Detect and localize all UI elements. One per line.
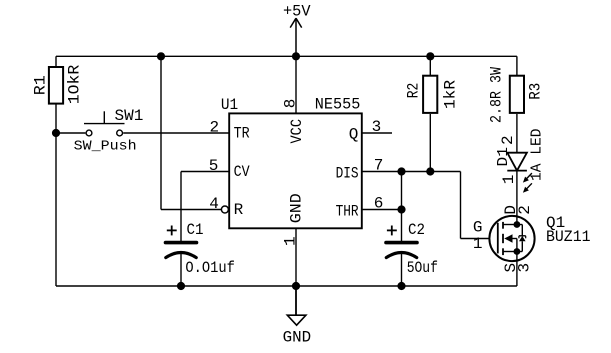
wire top bus <box>56 55 517 57</box>
svg-text:1kR: 1kR <box>442 80 460 109</box>
wire GND pin 1 <box>295 228 297 286</box>
svg-text:O.O1uf: O.O1uf <box>185 259 235 277</box>
svg-text:C2: C2 <box>408 221 425 239</box>
svg-text:SW1: SW1 <box>115 107 144 125</box>
resistor R3 <box>510 76 524 113</box>
svg-text:D1: D1 <box>496 147 512 167</box>
svg-text:R2: R2 <box>405 83 423 99</box>
node junction THR <box>397 205 405 213</box>
svg-text:R1: R1 <box>32 75 50 95</box>
svg-text:5: 5 <box>209 157 219 175</box>
wire reset vertical <box>160 56 162 209</box>
node junction top (R2) <box>426 52 434 60</box>
wire R2 bottom <box>429 114 431 172</box>
svg-text:NE555: NE555 <box>315 95 361 113</box>
svg-text:8: 8 <box>282 99 300 109</box>
wire R2 top <box>429 56 431 75</box>
svg-text:U1: U1 <box>221 96 238 114</box>
wire reset horizontal <box>161 209 221 211</box>
wire C2 vertical <box>401 172 403 242</box>
svg-text:6: 6 <box>374 194 384 212</box>
node junction DIS/R2 <box>426 167 434 175</box>
wire C1 bottom <box>180 254 182 287</box>
svg-text:1A LED: 1A LED <box>529 129 545 182</box>
capacitor C2 <box>386 243 417 258</box>
svg-text:BUZ11: BUZ11 <box>546 228 591 246</box>
wire gate vertical <box>460 172 462 239</box>
wire C2 bottom <box>401 254 403 287</box>
wire R3 to LED <box>516 114 518 153</box>
node junction C2/bus <box>397 282 405 290</box>
op IC U1 NE555 body <box>229 113 362 228</box>
wire THR horizontal <box>362 209 402 211</box>
svg-text:C1: C1 <box>187 221 204 239</box>
svg-text:Q: Q <box>349 126 359 144</box>
svg-text:7: 7 <box>374 156 384 174</box>
C2 plus sign <box>387 226 397 236</box>
svg-text:2: 2 <box>499 135 517 145</box>
node junction top (+5V/VCC) <box>292 52 300 60</box>
svg-text:1: 1 <box>473 235 483 253</box>
ground symbol <box>295 286 297 315</box>
wire CV horizontal <box>181 171 229 173</box>
svg-text:SW_Push: SW_Push <box>74 139 137 154</box>
svg-text:5Ouf: 5Ouf <box>407 259 438 277</box>
diode D1 LED <box>507 153 527 171</box>
svg-text:DIS: DIS <box>336 164 359 182</box>
capacitor C1 <box>166 243 197 258</box>
wire bottom bus <box>56 285 517 287</box>
node junction left rail / switch <box>52 129 60 137</box>
wire switch left <box>56 132 85 134</box>
svg-text:TR: TR <box>234 125 250 143</box>
wire C1 vertical <box>180 172 182 242</box>
svg-text:VCC: VCC <box>288 119 306 144</box>
transistor Q1 BUZ11 MOSFET <box>489 216 534 261</box>
svg-text:GND: GND <box>283 328 312 346</box>
svg-text:GND: GND <box>288 193 306 223</box>
svg-text:3: 3 <box>515 263 533 273</box>
wire R1 top stub <box>55 56 57 66</box>
svg-text:1OkR: 1OkR <box>66 64 84 104</box>
svg-text:1: 1 <box>500 175 518 185</box>
svg-text:THR: THR <box>336 202 359 220</box>
wire left rail <box>55 105 57 287</box>
svg-text:R: R <box>234 201 244 219</box>
resistor R1 <box>49 67 63 104</box>
LED emission arrows <box>525 173 532 190</box>
node junction top-left (reset branch) <box>157 52 165 60</box>
wire R3 top <box>516 56 518 75</box>
power symbol +5V <box>290 18 302 56</box>
node junction C1/bus <box>177 282 185 290</box>
node source dot <box>514 248 521 255</box>
svg-text:1: 1 <box>282 236 300 246</box>
svg-text:4: 4 <box>209 195 219 213</box>
C1 plus sign <box>167 226 177 236</box>
switch SW1 <box>84 111 125 136</box>
node drain dot <box>514 221 521 228</box>
svg-text:CV: CV <box>234 163 250 181</box>
wire DIS horizontal <box>362 171 461 173</box>
pin 4 inverted bubble <box>221 206 228 213</box>
node junction DIS/C2 branch <box>397 167 405 175</box>
svg-text:2.8R 3W: 2.8R 3W <box>488 67 506 123</box>
svg-text:R3: R3 <box>526 83 544 100</box>
svg-text:2: 2 <box>516 205 534 215</box>
body arrow <box>504 234 512 242</box>
wire gate horizontal <box>461 238 491 240</box>
body diode triangle <box>519 236 526 241</box>
wire Q stub pin 3 <box>362 132 392 134</box>
wire switch right to TR <box>123 132 229 134</box>
wire LED to drain <box>516 171 518 225</box>
resistor R2 <box>423 76 437 113</box>
svg-text:+5V: +5V <box>283 2 311 20</box>
svg-text:G: G <box>473 219 483 237</box>
svg-text:3: 3 <box>372 118 382 136</box>
node junction GND/bus <box>292 282 300 290</box>
svg-text:2: 2 <box>209 118 219 136</box>
wire source to bus <box>516 252 518 287</box>
wire VCC pin 8 <box>295 56 297 113</box>
